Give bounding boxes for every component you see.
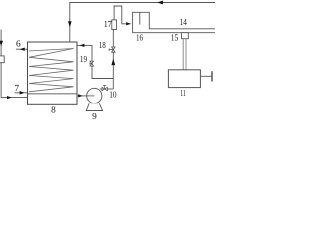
svg-text:15: 15 [171,33,179,43]
svg-text:6: 6 [16,39,21,49]
svg-text:8: 8 [51,106,56,116]
svg-text:10: 10 [109,91,117,101]
svg-text:16: 16 [136,34,143,44]
svg-text:19: 19 [80,55,87,65]
svg-text:9: 9 [92,112,97,120]
svg-text:17: 17 [104,20,112,30]
svg-text:7: 7 [14,84,19,94]
svg-text:14: 14 [180,18,187,28]
svg-text:11: 11 [180,89,186,99]
svg-text:18: 18 [99,41,106,51]
